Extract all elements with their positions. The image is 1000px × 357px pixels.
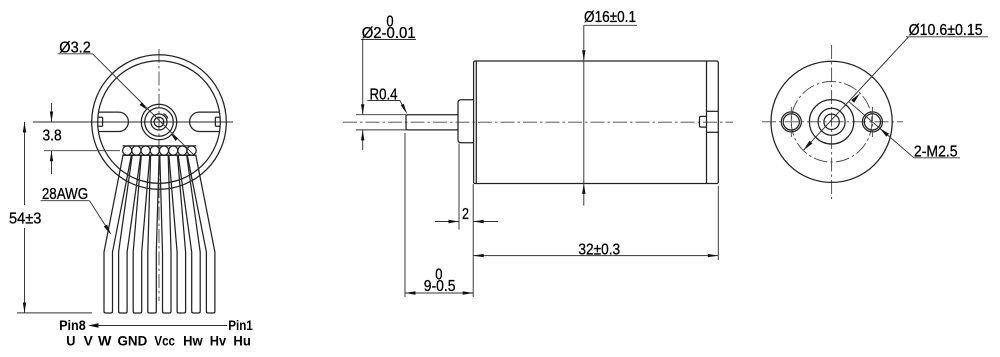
wire row top tangent line [123,145,197,147]
svg-text:Hw: Hw [183,334,203,349]
svg-text:GND: GND [118,334,148,349]
wire row bottom tangent line [123,154,197,156]
svg-text:3.8: 3.8 [43,127,62,144]
wire 5 [160,155,171,313]
dimension 3.8 line top [51,103,53,122]
svg-text:Hu: Hu [233,334,250,349]
dimension Ø10.6 upper arrow [851,93,860,102]
dimension Ø2 top arrow [361,104,364,115]
motor body [474,61,719,184]
dimension Ø2 underline [361,39,416,41]
label 2-M2.5 underline [914,157,960,159]
dimension 9 right arrow [463,291,474,294]
left screw hole outer [781,112,801,132]
svg-text:Hv: Hv [210,334,227,349]
label 28AWG leader [90,201,111,234]
svg-text:54±3: 54±3 [9,210,41,227]
motor outer flange circle [92,55,227,190]
dimension 9 line [405,292,473,294]
wire 6 [169,155,186,313]
label 28AWG underline [41,200,90,202]
wire end circle 7 [178,146,187,155]
wire end circle 6 [169,146,178,155]
dimension 3.8 top arrow [50,112,53,123]
right slot [190,112,220,131]
hook arc detail [164,114,168,119]
label R0.4 arrow [401,104,407,115]
hub circle 3 [151,114,167,130]
label R0.4 leader [400,101,405,111]
dimension Ø2 bottom arrow [361,130,364,141]
dimension Ø10.6 lower arrow [804,141,813,150]
wire end circle 1 [123,146,132,155]
rear hub circle 1 [809,100,853,144]
label 2-M2.5 leader [849,102,914,158]
dimension 54±3 bottom extension line [17,312,92,314]
dimension 54±3 line lower [24,228,26,313]
rear hub circle 2 [818,108,845,135]
svg-text:U: U [66,334,75,349]
svg-text:9-0.5: 9-0.5 [424,278,456,295]
left hole centermark [790,107,792,137]
bearing boss [458,100,474,143]
dimension 54±3 bottom arrow [23,303,26,314]
horizontal centerline front view [33,121,233,123]
extension line front face [472,184,474,297]
svg-text:2: 2 [462,206,469,223]
label 2-M2.5 arrow [880,128,889,136]
bolt circle [791,82,872,163]
pin arrowhead [88,323,99,327]
wire 3 [133,155,150,313]
horizontal centerline rear view [762,121,903,123]
dimension 32 left arrow [473,254,484,257]
dimension Ø3.2 underline [58,53,93,55]
wire end circle 4 [150,146,159,155]
dimension Ø10.6 underline [906,36,988,38]
dimension 3.8 bottom arrow [50,151,53,162]
vertical centerline rear view [831,45,833,199]
shaft extension top [356,114,406,116]
svg-text:Ø16±0.1: Ø16±0.1 [584,9,636,26]
dimension 32 line [473,255,718,257]
wire end circle 3 [141,146,150,155]
rear cap inner line [706,61,708,184]
dimension 32 right arrow [708,254,719,257]
rear hub circle 3 [824,114,839,129]
extension line shaft end [404,133,406,297]
dimension 2 left line [435,221,459,223]
svg-text:V: V [84,334,93,349]
dimension 3.8 extension line [44,150,120,152]
svg-text:Pin8: Pin8 [59,318,86,333]
left slot step [98,117,103,126]
dimension 2 right line [473,221,498,223]
dimension 2 right arrow [473,220,484,223]
dimension Ø16 underline [584,24,637,26]
wire 8 [187,155,215,313]
left screw hole inner [783,114,799,130]
vertical centerline front view [158,49,160,301]
hub circle 1 [141,104,176,139]
left slot [98,112,128,131]
dimension 54±3 top arrow [23,122,26,133]
dimension Ø3.2 arrow lower [171,134,178,141]
dimension 9 left arrow [405,291,416,294]
dimension 3.8 bottom line [51,151,53,174]
front plate line [475,61,477,184]
svg-text:Vcc: Vcc [154,334,175,349]
shaft [406,115,458,130]
motor can circle [98,61,221,184]
right hole centermark [871,107,873,137]
dimension Ø2 line [362,40,364,115]
dimension Ø3.2 leader [93,54,196,156]
dimension 54±3 line upper [24,122,26,205]
rear cap lower line [707,131,719,133]
rear cap upper line [707,110,719,112]
right screw hole inner [864,114,880,130]
dimension Ø16 bottom arrow [582,183,585,194]
dimension Ø3.2 arrow upper [140,102,147,109]
dimension Ø16 top arrow [582,50,585,61]
rear outer circle [771,61,892,182]
hub circle 2 [145,108,174,137]
shaft extension bottom [356,129,406,131]
wire 2 [119,155,141,313]
svg-text:Pin1: Pin1 [228,318,253,333]
svg-text:32±0.3: 32±0.3 [578,241,620,258]
centerline side view [343,121,733,123]
right screw hole outer [862,112,882,132]
label 28AWG arrow [104,225,111,235]
wire end circle 2 [132,146,141,155]
dimension 2 left arrow [449,220,460,223]
pin arrow line [97,325,227,327]
label R0.4 underline [368,100,401,102]
right slot step [215,117,220,126]
wire end circle 8 [187,146,196,155]
svg-text:W: W [98,334,112,349]
shaft circle [154,117,164,127]
wire end circle 5 [159,146,168,155]
wire 7 [178,155,200,313]
wire 4 [148,155,159,313]
dimension Ø10.6 leader [804,37,909,150]
extension line rear face [717,186,719,260]
extension line boss face [458,144,460,230]
dimension Ø16 line [583,25,585,205]
rear tab [700,116,707,127]
dimension Ø2 lower line [362,130,364,150]
wire 1 [104,155,131,313]
